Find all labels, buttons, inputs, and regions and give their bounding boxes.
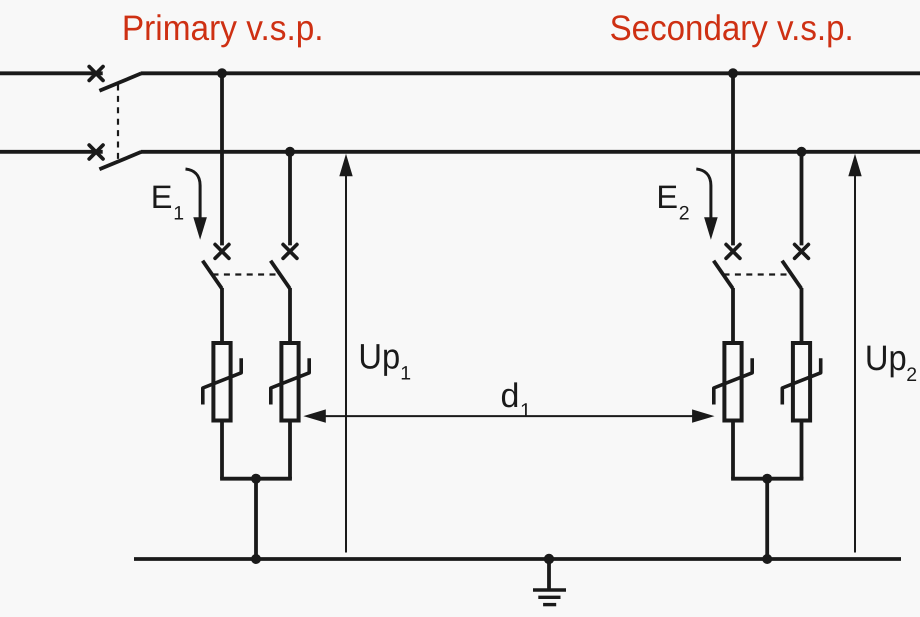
contact X mark of main disconnector pole b [89, 145, 103, 159]
mechanical link (dashed) of main disconnector [117, 85, 119, 161]
svg-text:E: E [151, 179, 173, 215]
svg-text:1: 1 [520, 400, 531, 422]
varistor F3 body [724, 343, 741, 421]
contact X mark secondary SPD switch b [795, 245, 809, 259]
node junction dot on L1 (primary tap) [217, 68, 227, 78]
wire secondary drop B [800, 152, 804, 246]
svg-text:1: 1 [173, 202, 184, 224]
svg-text:Primary v.s.p.: Primary v.s.p. [122, 8, 324, 48]
wire primary drop B [288, 152, 292, 246]
wire primary branch A to varistor [220, 288, 224, 343]
switch blade secondary SPD switch a [714, 261, 733, 289]
wire secondary joining bar [731, 477, 803, 481]
label Up1 [358, 337, 411, 385]
varistor F1 strike mark [203, 358, 241, 404]
contact X mark primary SPD switch a [215, 245, 229, 259]
node junction dot on L2 (primary tap) [285, 147, 295, 157]
varistor F1 body [213, 343, 230, 421]
wire secondary drop A [731, 73, 735, 245]
ground [533, 559, 566, 605]
wire primary earthing conductor [254, 479, 258, 559]
arrow E2 (curved energy arrow) [696, 169, 717, 240]
node junction dot at ground connection [544, 554, 554, 564]
wire below varistor F3 [731, 421, 735, 479]
varistor F4 body [793, 343, 810, 421]
svg-text:E: E [656, 179, 678, 215]
svg-text:Up: Up [358, 337, 400, 377]
svg-text:2: 2 [679, 202, 690, 224]
switch blade of main disconnector pole b [99, 152, 141, 169]
wire bus L2 right segment [141, 150, 920, 154]
switch blade secondary SPD switch b [782, 261, 801, 289]
switch blade of main disconnector pole a [99, 73, 141, 90]
svg-text:Up: Up [865, 338, 907, 378]
label E1 [151, 179, 184, 225]
wire bus L2 left segment [0, 150, 103, 154]
node junction dot on L2 (secondary tap) [797, 147, 807, 157]
dimension line Up1 [339, 154, 352, 553]
label d1 [501, 377, 532, 422]
wire below varistor F4 [800, 421, 804, 479]
varistor F4 strike mark [782, 358, 820, 404]
contact X mark primary SPD switch b [283, 245, 297, 259]
mechanical link (dashed) primary SPD switches [213, 273, 281, 275]
label Up2 [865, 338, 917, 386]
node junction dot on L1 (secondary tap) [728, 68, 738, 78]
wire secondary earthing conductor [765, 479, 769, 559]
wire primary joining bar [220, 477, 292, 481]
mechanical link (dashed) secondary SPD switches [724, 273, 792, 275]
node junction dot on earth bus (secondary) [762, 554, 772, 564]
wire earth bus [134, 557, 901, 561]
varistor F2 strike mark [271, 358, 309, 404]
varistor F2 body [281, 343, 298, 421]
svg-text:1: 1 [400, 363, 411, 385]
wire primary branch B to varistor [288, 288, 292, 343]
label E2 [656, 179, 689, 225]
node junction dot secondary join [762, 474, 772, 484]
varistor F3 strike mark [714, 358, 752, 404]
wire primary drop A [220, 73, 224, 245]
contact X mark secondary SPD switch a [726, 245, 740, 259]
svg-text:d: d [501, 377, 520, 415]
contact X mark of main disconnector pole a [89, 67, 103, 81]
switch blade primary SPD switch b [271, 261, 290, 289]
arrow E1 (curved energy arrow) [186, 169, 207, 240]
svg-text:Secondary v.s.p.: Secondary v.s.p. [610, 8, 854, 48]
switch blade primary SPD switch a [203, 261, 222, 289]
wire below varistor F2 [288, 421, 292, 479]
wire secondary branch A to varistor [731, 288, 735, 343]
node junction dot on earth bus (primary) [251, 554, 261, 564]
wire below varistor F1 [220, 421, 224, 479]
node junction dot primary join [251, 474, 261, 484]
dimension line Up2 [848, 154, 861, 553]
wire secondary branch B to varistor [800, 288, 804, 343]
wire bus L1 right segment [141, 71, 920, 75]
wire bus L1 left segment [0, 71, 103, 75]
svg-text:2: 2 [906, 364, 917, 386]
dimension line d1 [303, 409, 714, 422]
